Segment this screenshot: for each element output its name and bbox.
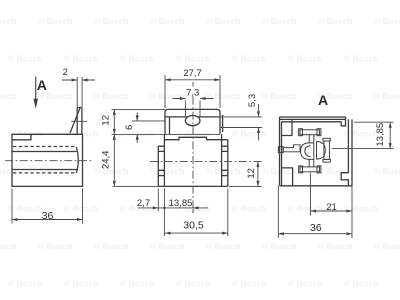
svg-text:© Bosch: © Bosch xyxy=(176,279,211,289)
svg-text:© Bosch: © Bosch xyxy=(120,279,155,289)
svg-text:© Bosch: © Bosch xyxy=(206,91,241,101)
svg-text:© Bosch: © Bosch xyxy=(38,166,73,176)
svg-text:© Bosch: © Bosch xyxy=(344,129,379,139)
svg-text:© Bosch: © Bosch xyxy=(176,54,211,64)
svg-text:24,4: 24,4 xyxy=(101,151,112,170)
svg-text:21: 21 xyxy=(326,202,337,213)
svg-text:© Bosch: © Bosch xyxy=(374,91,400,101)
svg-text:© Bosch: © Bosch xyxy=(38,241,73,251)
svg-text:© Bosch: © Bosch xyxy=(374,166,400,176)
svg-text:© Bosch: © Bosch xyxy=(374,16,400,26)
svg-text:© Bosch: © Bosch xyxy=(8,279,43,289)
svg-text:© Bosch: © Bosch xyxy=(232,204,267,214)
svg-text:© Bosch: © Bosch xyxy=(120,54,155,64)
svg-text:© Bosch: © Bosch xyxy=(150,91,185,101)
svg-text:7,3: 7,3 xyxy=(186,88,199,99)
svg-text:© Bosch: © Bosch xyxy=(38,16,73,26)
svg-text:12: 12 xyxy=(101,115,112,126)
svg-text:© Bosch: © Bosch xyxy=(8,54,43,64)
svg-text:© Bosch: © Bosch xyxy=(206,166,241,176)
svg-text:© Bosch: © Bosch xyxy=(288,279,323,289)
svg-text:© Bosch: © Bosch xyxy=(94,241,129,251)
svg-text:6: 6 xyxy=(124,125,135,130)
svg-text:A: A xyxy=(37,77,47,93)
svg-text:© Bosch: © Bosch xyxy=(64,279,99,289)
svg-text:© Bosch: © Bosch xyxy=(0,166,17,176)
svg-text:© Bosch: © Bosch xyxy=(318,241,353,251)
svg-text:2: 2 xyxy=(63,67,68,78)
svg-text:2,7: 2,7 xyxy=(137,198,150,209)
svg-text:© Bosch: © Bosch xyxy=(8,129,43,139)
svg-text:5,3: 5,3 xyxy=(247,94,258,107)
svg-text:27,7: 27,7 xyxy=(183,68,202,79)
svg-text:© Bosch: © Bosch xyxy=(232,129,267,139)
svg-text:36: 36 xyxy=(310,222,322,234)
svg-text:© Bosch: © Bosch xyxy=(0,91,17,101)
svg-text:© Bosch: © Bosch xyxy=(318,16,353,26)
svg-text:© Bosch: © Bosch xyxy=(288,204,323,214)
svg-text:© Bosch: © Bosch xyxy=(64,204,99,214)
svg-text:© Bosch: © Bosch xyxy=(262,16,297,26)
svg-text:© Bosch: © Bosch xyxy=(206,16,241,26)
svg-text:© Bosch: © Bosch xyxy=(232,279,267,289)
svg-text:© Bosch: © Bosch xyxy=(262,91,297,101)
svg-text:© Bosch: © Bosch xyxy=(344,54,379,64)
svg-text:© Bosch: © Bosch xyxy=(64,54,99,64)
svg-text:30,5: 30,5 xyxy=(183,220,204,232)
svg-text:12: 12 xyxy=(246,168,257,179)
svg-text:© Bosch: © Bosch xyxy=(206,241,241,251)
svg-text:© Bosch: © Bosch xyxy=(150,16,185,26)
svg-text:© Bosch: © Bosch xyxy=(150,241,185,251)
svg-text:© Bosch: © Bosch xyxy=(150,166,185,176)
svg-text:© Bosch: © Bosch xyxy=(374,241,400,251)
svg-text:© Bosch: © Bosch xyxy=(94,91,129,101)
svg-text:© Bosch: © Bosch xyxy=(0,241,17,251)
svg-text:© Bosch: © Bosch xyxy=(94,16,129,26)
svg-text:13,85: 13,85 xyxy=(169,198,193,209)
svg-text:© Bosch: © Bosch xyxy=(232,54,267,64)
svg-text:© Bosch: © Bosch xyxy=(344,204,379,214)
svg-text:© Bosch: © Bosch xyxy=(8,204,43,214)
svg-text:13,85: 13,85 xyxy=(375,123,386,147)
svg-text:36: 36 xyxy=(42,210,54,222)
svg-text:© Bosch: © Bosch xyxy=(0,16,17,26)
svg-text:© Bosch: © Bosch xyxy=(318,166,353,176)
svg-text:© Bosch: © Bosch xyxy=(344,279,379,289)
svg-text:© Bosch: © Bosch xyxy=(288,54,323,64)
svg-text:© Bosch: © Bosch xyxy=(262,241,297,251)
svg-text:A: A xyxy=(318,92,328,108)
